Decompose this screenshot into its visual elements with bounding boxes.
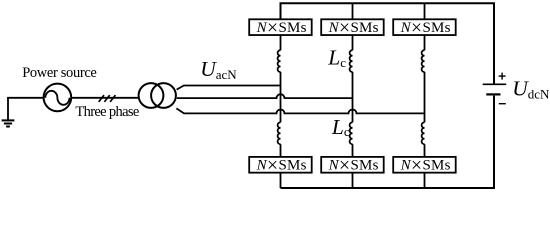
AC source circle: [44, 84, 72, 112]
leg 2 wire lower inductor to box: [352, 144, 354, 157]
ground: [2, 98, 15, 127]
upper arm box leg 3 (N x SMs): [393, 19, 456, 35]
DC source positive plate: [483, 83, 507, 85]
svg-text:N×SMs: N×SMs: [328, 155, 379, 177]
leg 1 wire lower inductor to box: [280, 144, 282, 157]
svg-text:N×SMs: N×SMs: [256, 17, 307, 39]
top stub leg 2: [352, 3, 354, 19]
leg 1 wire box to upper inductor: [280, 35, 282, 50]
lower arm inductor Lc leg 2: [350, 122, 353, 144]
upper arm box leg 1 (N x SMs): [249, 19, 312, 35]
wire ground to AC source: [7, 97, 44, 99]
svg-text:N×SMs: N×SMs: [400, 17, 451, 39]
top stub leg 3: [424, 3, 426, 19]
leg 3 wire lower inductor to box: [424, 144, 426, 157]
leg 1 mid vertical wire: [280, 72, 282, 123]
upper arm inductor Lc leg 1: [278, 50, 281, 72]
upper arm box leg 2 (N x SMs): [321, 19, 384, 35]
DC source negative plate: [486, 93, 500, 95]
top DC bus: [281, 3, 495, 84]
transformer winding 2: [151, 83, 176, 108]
transformer winding 1: [139, 83, 164, 108]
wire phase C to leg 3 with hops over legs 1 and 2: [176, 108, 424, 113]
svg-text:Lc: Lc: [331, 115, 350, 139]
svg-text:N×SMs: N×SMs: [400, 155, 451, 177]
three-phase slash marks: [99, 95, 116, 102]
bottom DC bus: [281, 96, 495, 188]
AC source sine wave: [45, 91, 69, 105]
leg 2 wire box to upper inductor: [352, 35, 354, 50]
lower arm inductor Lc leg 1: [278, 122, 281, 144]
bottom stub leg 3: [424, 173, 426, 188]
leg 2 mid vertical wire: [352, 72, 354, 123]
lower arm inductor Lc leg 3: [422, 122, 425, 144]
plus sign: [499, 73, 506, 80]
upper arm inductor Lc leg 3: [422, 50, 425, 72]
svg-text:Power source: Power source: [22, 65, 96, 81]
leg 3 wire box to upper inductor: [424, 35, 426, 50]
wire phase B to leg 2 with hop over leg 1: [177, 94, 353, 98]
lower arm box leg 2 (N x SMs): [321, 157, 384, 173]
minus sign: [499, 103, 506, 105]
upper arm inductor Lc leg 2: [350, 50, 353, 72]
bottom stub leg 2: [352, 173, 354, 188]
wire AC source to transformer: [71, 97, 139, 99]
svg-text:Lc: Lc: [327, 46, 346, 70]
svg-text:N×SMs: N×SMs: [328, 17, 379, 39]
lower arm box leg 1 (N x SMs): [249, 157, 312, 173]
wire phase A (UacN top line) to leg 1: [177, 86, 281, 90]
lower arm box leg 3 (N x SMs): [393, 157, 456, 173]
bottom stub leg 1: [280, 173, 282, 188]
leg 3 mid vertical wire: [424, 72, 426, 123]
svg-text:UacN: UacN: [200, 57, 237, 82]
svg-text:N×SMs: N×SMs: [256, 155, 307, 177]
svg-text:UdcN: UdcN: [512, 76, 550, 101]
svg-text:Three phase: Three phase: [75, 104, 139, 120]
